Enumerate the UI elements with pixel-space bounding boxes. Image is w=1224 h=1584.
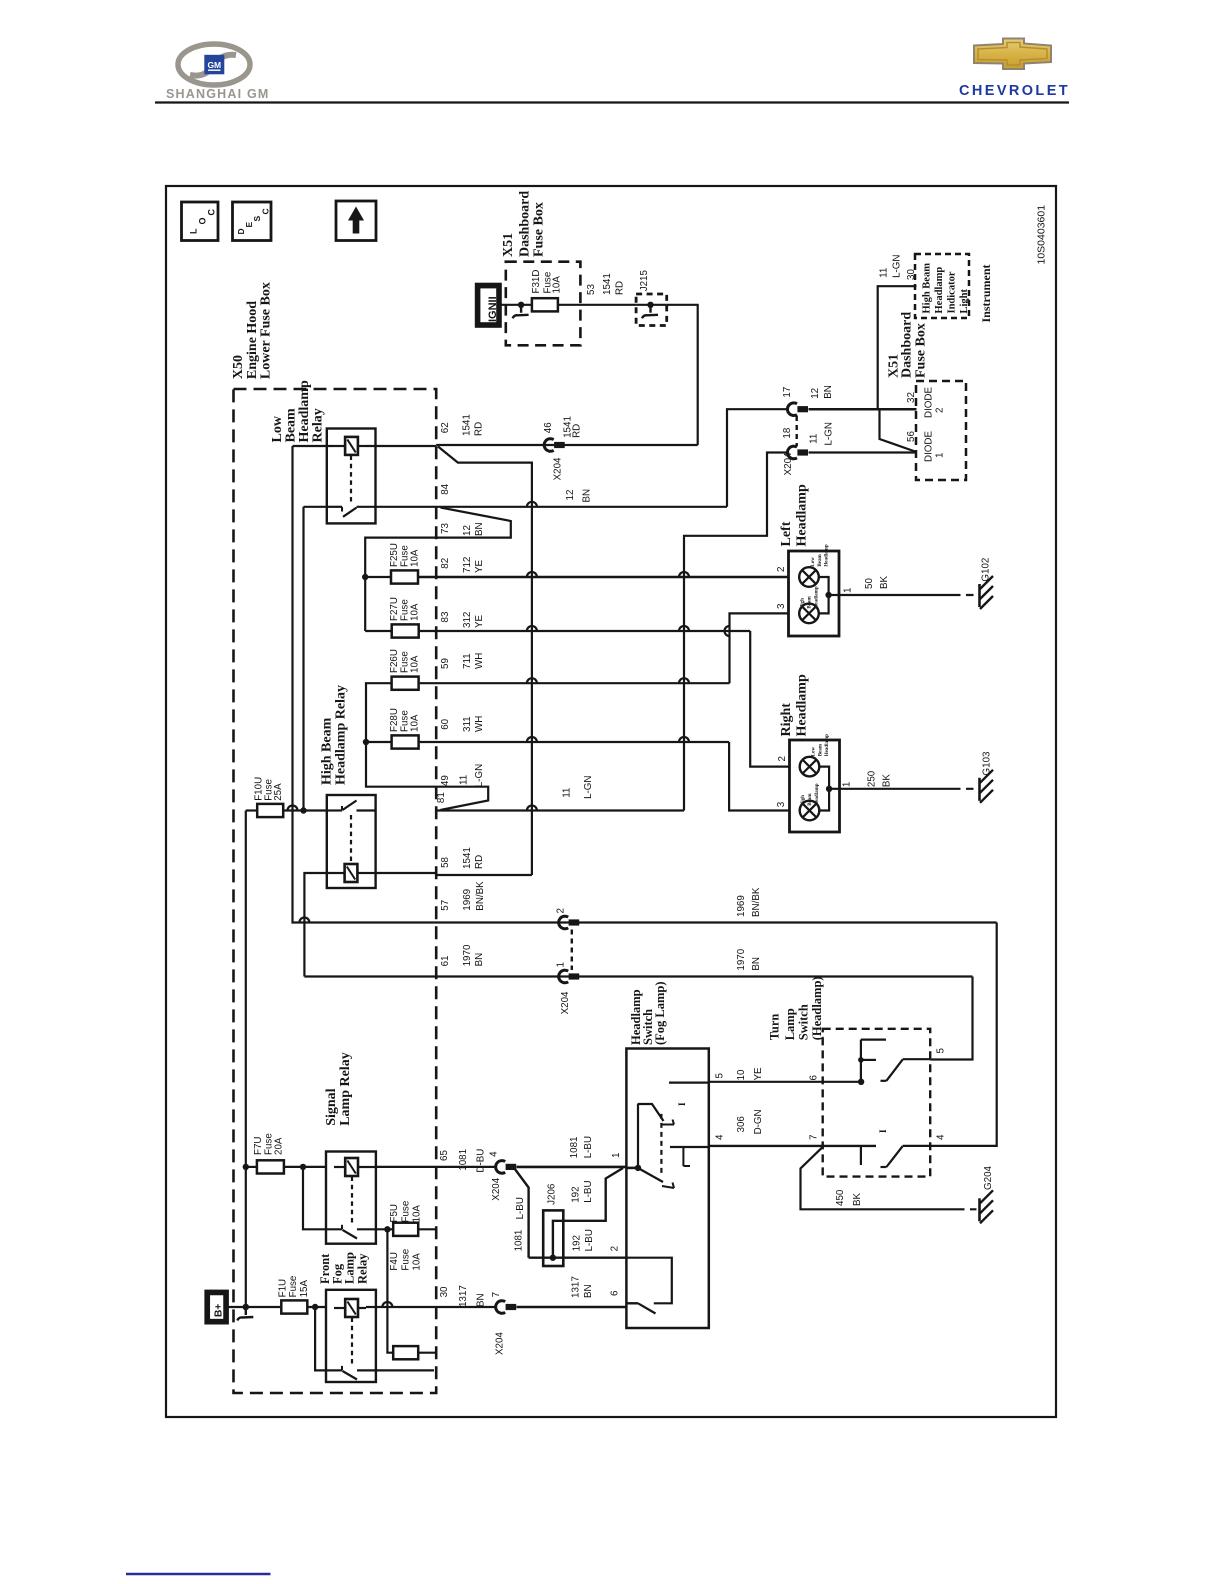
relay signal lamp contact: [303, 1167, 376, 1239]
svg-text:C: C: [207, 209, 217, 216]
relay high beam contact: [327, 801, 376, 811]
relay front fog armature link: [351, 1318, 353, 1365]
svg-text:Beam: Beam: [818, 554, 823, 567]
wire 11 L-GN connector 18 to diode pin 56: [809, 422, 917, 452]
svg-text:192: 192: [571, 1186, 582, 1202]
svg-text:4: 4: [936, 1134, 947, 1140]
svg-text:F28U: F28U: [389, 708, 400, 732]
fuse F5U 10A: [389, 1200, 436, 1236]
svg-text:C: C: [260, 208, 270, 214]
relay front fog coil: [345, 1299, 358, 1317]
relay low beam headlamp label: [270, 380, 326, 442]
svg-text:RD: RD: [474, 855, 485, 869]
svg-text:312: 312: [462, 612, 473, 628]
svg-text:250: 250: [866, 770, 877, 787]
svg-text:SHANGHAI GM: SHANGHAI GM: [166, 87, 269, 101]
headlamp switch box: [626, 1049, 708, 1329]
hops 312YE over verticals: [527, 626, 537, 631]
svg-text:L-BU: L-BU: [515, 1197, 526, 1219]
svg-text:10A: 10A: [552, 276, 563, 294]
hop F10U wire over 1969 vertical: [288, 806, 298, 811]
svg-text:46: 46: [543, 422, 554, 433]
battery terminal B+: [205, 1290, 246, 1324]
svg-text:X204: X204: [495, 1332, 506, 1355]
connector X204 1-2 bracket: [571, 930, 573, 971]
wire 250 BK right headlamp to ground: [840, 770, 977, 789]
svg-text:1081: 1081: [458, 1149, 469, 1171]
diode DIODE 2 pin 32: [906, 387, 946, 418]
svg-text:1541: 1541: [462, 414, 473, 436]
svg-text:7: 7: [491, 1292, 502, 1297]
relay high beam armature link: [350, 815, 352, 862]
svg-text:High Beam: High Beam: [319, 717, 334, 785]
svg-text:L: L: [189, 228, 199, 234]
svg-text:6: 6: [610, 1290, 621, 1296]
svg-text:32: 32: [906, 392, 917, 403]
wire X50 internal bus pin 73 to fuses F25U F27U: [362, 538, 436, 631]
svg-text:1: 1: [935, 453, 946, 458]
svg-text:56: 56: [906, 431, 917, 442]
svg-text:DIODE: DIODE: [924, 387, 935, 418]
connector X204 pin 7: [491, 1292, 516, 1355]
svg-text:711: 711: [462, 653, 473, 669]
fuse F10U 25A: [246, 777, 327, 817]
hop 1317 over F4U drop: [382, 1302, 392, 1307]
fuse F25U 10A: [389, 543, 421, 584]
svg-text:Low: Low: [811, 746, 816, 756]
svg-text:5: 5: [936, 1048, 947, 1054]
svg-text:X204: X204: [552, 457, 563, 480]
wire 1081 L-BU drop to J206: [514, 1169, 529, 1258]
svg-text:1317: 1317: [571, 1276, 582, 1298]
svg-text:Right: Right: [779, 703, 794, 737]
svg-text:1317: 1317: [458, 1285, 469, 1307]
svg-text:50: 50: [864, 578, 875, 589]
wire 1081 L-BU connector 4 to headlamp switch pin 1: [517, 1136, 627, 1167]
svg-text:G103: G103: [982, 751, 993, 776]
connector X204 pin 1: [556, 962, 580, 1014]
fuse F26U 10A: [389, 649, 421, 690]
relay low beam armature link: [350, 456, 352, 504]
svg-text:12: 12: [462, 525, 473, 536]
headlamp switch pin 4 contact: [670, 1147, 709, 1166]
connector X204 pin 4: [489, 1151, 517, 1201]
svg-text:High: High: [801, 598, 806, 609]
svg-text:G102: G102: [981, 558, 992, 582]
ground G204: [980, 1165, 995, 1223]
right headlamp high beam bulb: [800, 783, 820, 820]
hops 712YE over verticals: [527, 572, 537, 577]
diode DIODE 1 pin 56: [906, 431, 946, 462]
svg-text:F25U: F25U: [389, 543, 400, 567]
svg-text:Beam: Beam: [818, 743, 823, 756]
svg-text:Relay: Relay: [355, 1253, 369, 1284]
right headlamp box: [790, 740, 840, 832]
headlamp switch upper blade: [638, 1104, 674, 1125]
svg-text:Signal: Signal: [324, 1088, 339, 1125]
svg-text:10A: 10A: [410, 549, 421, 567]
svg-text:2: 2: [610, 1246, 621, 1251]
wire 1970 riser to turn lamp switch pin 5: [930, 977, 972, 1060]
fuse box X51 diode box outline: [916, 381, 966, 480]
wire 711 WH fuse F26U pin 59 to left headlamp pin 3: [420, 613, 789, 683]
svg-text:Fuse: Fuse: [288, 1275, 299, 1297]
svg-text:Headlamp: Headlamp: [795, 484, 810, 546]
svg-text:Lamp Relay: Lamp Relay: [338, 1052, 353, 1126]
svg-text:YE: YE: [753, 1067, 764, 1081]
svg-text:Fuse Box: Fuse Box: [532, 202, 547, 257]
svg-text:1969: 1969: [462, 889, 473, 911]
fuse F28U 10A: [389, 708, 421, 749]
svg-text:DIODE: DIODE: [924, 431, 935, 462]
relay signal lamp label: [324, 1052, 353, 1126]
relay high beam coil: [345, 864, 358, 882]
wire 712 YE fuse F25U pin 82 to left headlamp pin 2: [418, 557, 789, 577]
wire signal relay output to fuse F5U: [376, 1228, 393, 1230]
svg-text:IGNII: IGNII: [487, 296, 499, 322]
svg-text:BN: BN: [476, 1293, 487, 1307]
relay low beam coil: [345, 437, 358, 455]
legend box LOC: [182, 202, 219, 241]
right headlamp label: [779, 674, 810, 736]
wire 1970 BN high beam coil to pin 61 and connector X204-1: [304, 944, 972, 976]
fuse box X51 dashboard (top) label: [501, 191, 547, 257]
svg-text:I: I: [677, 1102, 687, 1106]
wire F4U branch: [387, 1229, 393, 1352]
svg-text:X51: X51: [501, 233, 516, 257]
header rule line: [155, 101, 1069, 103]
svg-text:30: 30: [439, 1286, 450, 1297]
relay signal lamp coil: [345, 1158, 358, 1176]
svg-text:49: 49: [440, 775, 451, 786]
svg-text:F5U: F5U: [389, 1204, 400, 1223]
svg-text:1969: 1969: [736, 895, 747, 917]
svg-text:WH: WH: [474, 653, 485, 669]
svg-text:L-BU: L-BU: [584, 1229, 595, 1251]
svg-text:73: 73: [440, 523, 451, 534]
svg-text:10A: 10A: [410, 714, 421, 732]
svg-text:Low: Low: [811, 557, 816, 567]
svg-text:10A: 10A: [412, 1205, 423, 1223]
wire contact to pin 84: [376, 506, 437, 508]
svg-text:Indicator: Indicator: [947, 271, 958, 313]
headlamp switch pivot riser: [637, 1104, 639, 1168]
headlamp switch label: [629, 981, 667, 1045]
svg-text:61: 61: [440, 955, 451, 966]
turn switch lower blade: [886, 1146, 902, 1167]
terminal clamp at B+ feed: [243, 1304, 249, 1310]
svg-text:BN: BN: [474, 953, 485, 967]
svg-text:YE: YE: [474, 614, 485, 628]
svg-text:RD: RD: [615, 281, 626, 295]
svg-text:1: 1: [841, 782, 852, 787]
wire high beam indicator feed: [878, 254, 917, 452]
svg-text:18: 18: [782, 427, 793, 438]
svg-text:2: 2: [935, 408, 946, 413]
svg-text:X204: X204: [783, 452, 794, 475]
wire X50 internal bus pin 49 to fuses F26U F28U: [363, 683, 436, 787]
left headlamp low beam bulb: [799, 544, 829, 587]
turn lamp switch label: [768, 976, 824, 1040]
relay front fog lamp label: [318, 1252, 369, 1284]
svg-text:1541: 1541: [602, 273, 613, 295]
left headlamp high beam bulb: [799, 586, 819, 623]
svg-text:I: I: [878, 1129, 888, 1133]
svg-text:WH: WH: [474, 716, 485, 732]
left headlamp box: [789, 551, 840, 636]
connector X204 pin 46: [543, 416, 583, 480]
svg-text:3: 3: [776, 603, 787, 609]
headlamp switch fog section contact loop: [626, 1258, 671, 1304]
wire 311 WH fuse F28U pin 60 to right headlamp pin 3: [420, 716, 790, 811]
svg-text:O: O: [198, 217, 208, 224]
fuse F7U 20A: [243, 1133, 326, 1174]
svg-text:Lamp: Lamp: [783, 1008, 797, 1040]
hops 311WH over verticals: [527, 737, 537, 742]
svg-text:25A: 25A: [273, 783, 284, 801]
svg-text:L-GN: L-GN: [583, 775, 594, 798]
svg-text:Instrument: Instrument: [979, 264, 993, 322]
svg-text:Headlamp: Headlamp: [795, 674, 810, 736]
svg-text:F27U: F27U: [389, 597, 400, 621]
svg-text:10A: 10A: [410, 655, 421, 673]
svg-text:60: 60: [440, 718, 451, 729]
svg-text:192: 192: [571, 1235, 582, 1251]
svg-text:B+: B+: [214, 1304, 225, 1317]
wire 312 YE fuse F27U pin 83 to right headlamp pin 2: [419, 611, 790, 767]
svg-text:J215: J215: [639, 270, 650, 292]
svg-text:D: D: [236, 228, 246, 234]
svg-text:1: 1: [611, 1153, 622, 1158]
legend box DESC: [233, 202, 272, 241]
svg-text:BN: BN: [582, 489, 593, 503]
wire 1969 riser to turn lamp switch pin 4: [930, 923, 997, 1146]
svg-text:1081: 1081: [514, 1230, 525, 1252]
battery bus B+ vertical: [245, 811, 247, 1308]
connector X204 17-18 bracket: [796, 416, 798, 446]
svg-text:58: 58: [440, 856, 451, 867]
wire 306 D-GN headlamp switch pin 4 to turn switch pin 7: [709, 1109, 876, 1146]
svg-text:15A: 15A: [299, 1280, 310, 1298]
svg-text:Dashboard: Dashboard: [517, 191, 532, 257]
turn switch upper contact bar: [858, 1040, 886, 1082]
svg-text:YE: YE: [474, 559, 485, 573]
svg-text:High Beam: High Beam: [922, 263, 933, 314]
fuse F4U 10A: [389, 1248, 436, 1359]
turn switch lower stub: [860, 1146, 862, 1165]
svg-text:L-GN: L-GN: [474, 764, 485, 787]
wire 50 BK left headlamp to ground: [839, 575, 977, 595]
junction fog relay feed: [312, 1304, 318, 1310]
legend box up-arrow: [336, 201, 376, 241]
svg-text:4: 4: [715, 1134, 726, 1140]
svg-text:J206: J206: [546, 1183, 557, 1205]
relay high beam headlamp box: [327, 795, 376, 888]
right headlamp low beam bulb: [800, 734, 830, 777]
svg-text:11: 11: [459, 775, 470, 785]
svg-text:Headlamp Relay: Headlamp Relay: [334, 685, 349, 785]
headlamp switch fog section pin 6 blade: [626, 1303, 655, 1313]
fuse box X50 outline: [234, 389, 437, 1393]
turn switch upper blade: [886, 1059, 902, 1080]
svg-text:BN: BN: [823, 385, 834, 399]
svg-text:2: 2: [776, 567, 787, 572]
svg-text:53: 53: [586, 284, 597, 295]
svg-text:Lower Fuse Box: Lower Fuse Box: [259, 282, 274, 379]
svg-text:F31D: F31D: [531, 270, 542, 294]
svg-text:Fuse: Fuse: [401, 1200, 412, 1222]
junction J206: [543, 1183, 563, 1266]
wire 1081 D-BU pin 65 to connector X204-4: [376, 1149, 497, 1173]
svg-text:Switch: Switch: [796, 1004, 810, 1040]
svg-text:10: 10: [736, 1069, 747, 1080]
svg-text:D-BU: D-BU: [476, 1149, 487, 1173]
fuse F1U 15A: [243, 1275, 326, 1314]
svg-text:10A: 10A: [412, 1253, 423, 1271]
right headlamp common bracket pin 1: [819, 767, 839, 811]
terminal clamp at IGNII feed: [518, 302, 524, 308]
svg-text:311: 311: [462, 716, 473, 732]
svg-text:High: High: [801, 795, 806, 806]
wire IGNII feed to fuse F31D: [501, 304, 532, 306]
wire 11 L-GN riser to connector X204-18: [684, 453, 788, 811]
hop 1969 over 1970 riser: [299, 918, 309, 923]
svg-text:F4U: F4U: [389, 1252, 400, 1271]
ground G102: [980, 558, 994, 609]
svg-text:BN: BN: [474, 522, 485, 536]
svg-text:Fuse Box: Fuse Box: [914, 323, 929, 378]
svg-text:6: 6: [809, 1075, 820, 1081]
svg-text:11: 11: [879, 268, 890, 278]
svg-text:82: 82: [440, 558, 451, 569]
svg-text:10S0403601: 10S0403601: [1036, 205, 1048, 265]
svg-text:12: 12: [810, 388, 821, 399]
relay front fog lamp box: [326, 1290, 376, 1382]
svg-text:X50: X50: [231, 355, 246, 379]
svg-text:81: 81: [436, 792, 447, 803]
svg-text:BK: BK: [879, 575, 890, 589]
svg-text:306: 306: [736, 1116, 747, 1133]
connector X204 pin 18: [782, 427, 808, 475]
headlamp switch link: [660, 1114, 662, 1177]
svg-text:X204: X204: [491, 1177, 502, 1200]
svg-text:X204: X204: [560, 991, 571, 1014]
svg-text:Beam: Beam: [808, 596, 813, 609]
fuse box X51 dashboard (diode) label: [886, 312, 928, 378]
svg-text:L-GN: L-GN: [892, 254, 903, 277]
svg-text:Headlamp: Headlamp: [934, 267, 945, 314]
wire 1969 BN/BK low beam coil to pin 57 and connector X204-2: [293, 446, 997, 923]
svg-text:2: 2: [556, 908, 567, 913]
svg-text:BK: BK: [852, 1192, 863, 1206]
svg-text:BN/BK: BN/BK: [751, 887, 762, 917]
svg-text:BN: BN: [583, 1284, 594, 1298]
wire low beam contact feed riser: [302, 507, 304, 811]
fuse F27U 10A: [389, 597, 421, 638]
svg-text:F26U: F26U: [389, 649, 400, 673]
svg-text:D-GN: D-GN: [753, 1109, 764, 1134]
wire 1317 BN pin 30 to connector X204-7: [376, 1285, 497, 1307]
relay low beam headlamp box: [327, 429, 376, 524]
svg-text:1970: 1970: [736, 948, 747, 970]
svg-text:Headlamp: Headlamp: [825, 734, 830, 756]
wire 1541 RD branch pin 62 down to pin 58: [436, 447, 532, 876]
svg-text:Beam: Beam: [808, 793, 813, 806]
svg-text:1: 1: [556, 962, 567, 967]
svg-text:Headlamp: Headlamp: [815, 586, 820, 608]
wire 1541 RD from J215 down to X204-46 run: [667, 305, 698, 445]
svg-text:Turn: Turn: [768, 1014, 782, 1041]
wire 10 YE headlamp switch pin 5 to turn switch pin 6: [709, 1067, 865, 1085]
svg-text:G204: G204: [983, 1165, 994, 1190]
footer blue rule: [126, 1573, 271, 1575]
svg-text:62: 62: [440, 422, 451, 433]
wire 11 L-GN pins 49 81 loop: [436, 764, 488, 810]
wire coil feed to pin 62: [293, 445, 335, 447]
svg-text:17: 17: [782, 387, 793, 398]
wire fog relay output stub: [376, 1369, 434, 1371]
svg-text:11: 11: [809, 434, 820, 444]
wire 1541 RD pin 58 labels: [440, 847, 485, 869]
svg-text:RD: RD: [474, 422, 485, 436]
wire 192 L-BU J206 branch to headlamp switch pin 1: [553, 1168, 623, 1258]
wire 1317 BN connector 7 to headlamp switch pin 6: [517, 1276, 627, 1307]
connector X204 pin 17: [782, 387, 808, 416]
svg-text:L-BU: L-BU: [583, 1180, 594, 1202]
svg-text:CHEVROLET: CHEVROLET: [959, 83, 1070, 99]
left headlamp label: [779, 484, 810, 546]
svg-text:BN: BN: [751, 957, 762, 971]
hops 711WH over verticals: [527, 678, 537, 683]
headlamp switch pin 1 and lower blade: [626, 1165, 674, 1188]
svg-text:S: S: [252, 216, 262, 222]
svg-text:12: 12: [565, 490, 576, 501]
svg-text:84: 84: [440, 483, 451, 494]
svg-text:Headlamp: Headlamp: [815, 783, 820, 805]
svg-text:Left: Left: [779, 521, 794, 546]
svg-text:(Fog Lamp): (Fog Lamp): [653, 981, 667, 1045]
svg-text:F7U: F7U: [253, 1136, 264, 1155]
svg-text:712: 712: [462, 557, 473, 573]
svg-text:Dashboard: Dashboard: [899, 312, 914, 378]
fuse F31D 10A: [531, 270, 563, 312]
wire 11 L-GN pin 81 to riser: [436, 775, 684, 810]
relay front fog contact: [315, 1307, 376, 1380]
junction signal relay feed: [300, 1164, 306, 1170]
junction J215: [636, 270, 667, 326]
svg-text:RD: RD: [571, 424, 582, 438]
svg-text:450: 450: [835, 1189, 846, 1206]
connector X204 pin 2: [556, 908, 580, 929]
svg-text:4: 4: [489, 1151, 500, 1157]
wire 192 L-BU J206 to headlamp switch pin 2: [529, 1229, 627, 1261]
svg-text:Fuse: Fuse: [401, 1248, 412, 1270]
wire 12 BN connector 17 to diode pin 32: [809, 385, 917, 409]
relay signal lamp armature link: [351, 1177, 353, 1225]
svg-text:83: 83: [440, 611, 451, 622]
junction F10U output: [300, 807, 306, 813]
hop 11LGN over 1541RD vertical: [527, 806, 537, 811]
wire pin 73 loop from pin 84: [436, 508, 511, 538]
svg-text:7: 7: [809, 1135, 820, 1140]
svg-text:L-GN: L-GN: [824, 422, 835, 445]
logo Chevrolet bowtie: [974, 39, 1051, 70]
svg-text:59: 59: [440, 658, 451, 669]
indicator lamp box high beam headlamp indicator light: [915, 254, 970, 318]
svg-text:1970: 1970: [462, 944, 473, 966]
svg-text:1541: 1541: [462, 847, 473, 869]
wire high beam coil to 1970 riser: [304, 873, 334, 977]
